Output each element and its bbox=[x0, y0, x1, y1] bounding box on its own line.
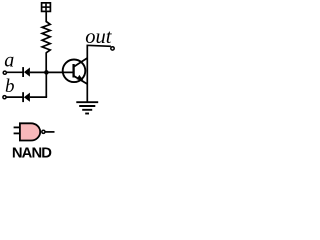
output terminal bbox=[111, 47, 114, 50]
input terminal b bbox=[3, 96, 6, 99]
wire a to diode D1 bbox=[7, 71, 23, 73]
wire resistor to node bbox=[45, 53, 47, 74]
svg-text:NAND: NAND bbox=[12, 146, 52, 162]
svg-text:a: a bbox=[4, 50, 14, 72]
node junction dot bbox=[44, 70, 49, 75]
wire collector-emitter rail bbox=[86, 45, 88, 102]
wire node down to b branch bbox=[45, 72, 47, 97]
wire rail to out terminal bbox=[87, 45, 111, 46]
wire D1 to transistor base bbox=[30, 71, 74, 73]
wire V+ to resistor bbox=[45, 12, 47, 22]
ground bbox=[76, 102, 98, 113]
resistor R1 bbox=[42, 22, 50, 53]
NAND gate icon bbox=[14, 123, 55, 140]
wire b to diode D2 bbox=[7, 96, 23, 98]
wire D2 to rail corner bbox=[30, 96, 47, 98]
input terminal a bbox=[3, 71, 6, 74]
diode D2 bbox=[23, 92, 30, 102]
power supply V+ (boxed plus) bbox=[42, 3, 51, 12]
transistor Q1 (NPN) bbox=[63, 58, 88, 84]
diode D1 bbox=[23, 67, 30, 77]
svg-text:b: b bbox=[5, 76, 15, 97]
svg-text:out: out bbox=[85, 26, 113, 48]
